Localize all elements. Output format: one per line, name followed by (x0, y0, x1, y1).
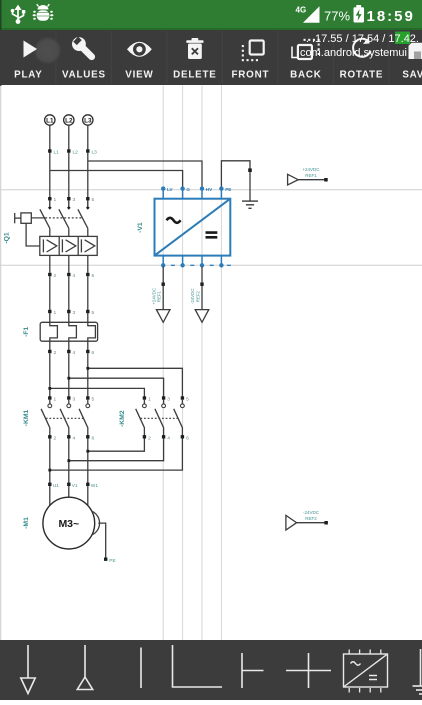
wires KM1 to motor (50, 439, 88, 485)
svg-text:4: 4 (73, 273, 76, 279)
wire L1 vertical (49, 125, 51, 199)
KM2 contact pole 3 (181, 400, 183, 404)
KM2 contact pole 2 (163, 400, 165, 404)
circuit breaker -Q1 (4, 197, 98, 279)
svg-text:PLAY: PLAY (14, 70, 42, 81)
contactor -KM1 (23, 396, 95, 441)
svg-text:5: 5 (92, 397, 95, 403)
KM2 pin 6 (181, 435, 184, 438)
status bar background (0, 0, 422, 30)
V1 bottom pin 3 (201, 256, 203, 266)
svg-text:PE: PE (109, 558, 115, 564)
svg-text:M3~: M3~ (58, 518, 79, 530)
svg-text:L3: L3 (84, 117, 92, 124)
svg-text:-F1: -F1 (23, 326, 30, 336)
Q1 pin 5 (86, 197, 89, 200)
svg-text:VALUES: VALUES (62, 70, 106, 81)
Q1 operator handle (14, 213, 16, 223)
wires F1 to KM1 (50, 353, 88, 398)
signal triangle (303, 6, 320, 23)
Q1 pin 6 (86, 273, 89, 276)
F1 pin 2 (48, 350, 51, 353)
svg-text:L1: L1 (54, 150, 60, 156)
play button ripple (34, 37, 62, 65)
svg-text:-24VDC: -24VDC (303, 510, 320, 515)
net arrow +24VDC (156, 310, 170, 323)
junction dot (67, 459, 70, 462)
motor body circle (43, 497, 95, 549)
svg-text:FRONT: FRONT (232, 70, 270, 81)
wire KM2 pin4 to phase B (69, 439, 164, 461)
Q1 pin 2 (48, 273, 51, 276)
svg-text:5: 5 (186, 397, 189, 403)
motor lead wires (50, 486, 88, 506)
ground symbol (242, 201, 258, 208)
svg-text:W1: W1 (91, 483, 99, 489)
V1 bottom pin 4 (220, 256, 222, 266)
tool icon: corner wire (173, 645, 223, 687)
svg-text:2: 2 (54, 435, 57, 441)
Q1 mechanical link (31, 217, 45, 219)
svg-text:+24VDC: +24VDC (302, 167, 320, 172)
bug (adb debug) icon (33, 4, 54, 21)
svg-text:PE: PE (225, 187, 231, 192)
tool icon: earth triangle (77, 645, 92, 690)
KM2 pin 1 (143, 396, 146, 399)
tool icon: ground (clipped) (413, 649, 422, 694)
right net reference +24VDC REF1 (288, 167, 328, 185)
overload relay -F1 (23, 310, 98, 356)
junction dot (48, 387, 51, 390)
wire branch A to KM2 pin1 (50, 388, 145, 398)
KM1 pin 4 (67, 435, 70, 438)
svg-text:-M1: -M1 (23, 517, 30, 529)
F1 heater element 1 (50, 313, 58, 352)
svg-text:5: 5 (92, 197, 95, 203)
svg-text:2: 2 (54, 350, 57, 356)
svg-text:-Q1: -Q1 (4, 232, 11, 244)
junction dot (48, 469, 51, 472)
battery icon (354, 7, 365, 22)
svg-text:ROTATE: ROTATE (340, 70, 384, 81)
svg-text:G: G (186, 187, 190, 192)
svg-text:HV: HV (206, 187, 213, 192)
TOPBAR (0, 30, 422, 85)
svg-text:VIEW: VIEW (125, 70, 153, 81)
svg-text:V1: V1 (72, 483, 78, 489)
values wrench icon (69, 34, 99, 64)
svg-text:REF2: REF2 (305, 516, 317, 521)
usb icon (13, 6, 24, 23)
svg-text:77%: 77% (324, 8, 350, 23)
wire branch C to KM2 pin5 (88, 368, 183, 398)
bottom toolbar background (0, 640, 422, 700)
view eye icon (127, 42, 152, 57)
KM1 link dashes (46, 417, 83, 419)
svg-text:4: 4 (73, 435, 76, 441)
wire KM2 pin6 to phase A (50, 439, 183, 471)
F1 pin 6 (86, 350, 89, 353)
wire L3 to V1 HV (88, 161, 202, 189)
Q1 trip element 3 (81, 239, 94, 252)
KM2 pin 3 (162, 396, 165, 399)
STATUSBAR (0, 0, 422, 30)
wires Q1 to F1 (50, 276, 88, 311)
grid horizontal lines (0, 190, 422, 266)
contactor -KM2 (119, 396, 189, 441)
KM1 pin 6 (86, 435, 89, 438)
window ident bracket icon (292, 47, 298, 58)
gpu profiler green chip (395, 32, 410, 45)
svg-text:18:59: 18:59 (367, 8, 415, 25)
motor PE node (104, 558, 107, 561)
node L1 (48, 149, 59, 155)
KM2 contact pole 1 (143, 400, 145, 404)
svg-text:4: 4 (73, 350, 76, 356)
junction dot (200, 283, 203, 286)
Q1 trip unit box (40, 236, 97, 255)
svg-text:3: 3 (167, 397, 170, 403)
svg-text:. .17.55 / 17.54 / 17.42.: . .17.55 / 17.54 / 17.42. (306, 33, 419, 45)
svg-text:3: 3 (73, 397, 76, 403)
rotate icon (353, 38, 370, 57)
terminal L2 (64, 115, 74, 125)
svg-text:6: 6 (92, 273, 95, 279)
F1 pin 4 (67, 350, 70, 353)
svg-text:1: 1 (54, 310, 57, 316)
svg-text:1: 1 (54, 197, 57, 203)
KM1 contact pole 2 (68, 400, 70, 404)
svg-text:6: 6 (92, 350, 95, 356)
junction dot (86, 367, 89, 370)
svg-text:6: 6 (186, 435, 189, 441)
V1 bottom pin 2 (182, 256, 184, 266)
tool icon: converter block (344, 650, 388, 693)
node L3 (86, 149, 97, 155)
svg-text:1: 1 (54, 397, 57, 403)
back icon (298, 39, 320, 59)
button separators (56, 31, 389, 84)
motor terminal W1 (86, 483, 89, 486)
KM1 contact pole 1 (49, 400, 51, 404)
F1 pin 3 (67, 310, 70, 313)
wire V1 LV- to arrow (162, 267, 164, 310)
F1 pin 5 (86, 310, 89, 313)
svg-text:1: 1 (148, 397, 151, 403)
V1 AC tilde (167, 218, 181, 223)
motor terminal U1 (48, 483, 51, 486)
svg-text:REF2: REF2 (195, 290, 200, 302)
svg-text:U1: U1 (53, 483, 59, 489)
wire KM2 pin2 to phase C (88, 439, 145, 452)
svg-text:L1: L1 (46, 117, 54, 124)
node L2 (67, 149, 78, 155)
KM2 link dashes (140, 417, 177, 419)
motor terminal V1 (67, 483, 70, 486)
terminal L3 (83, 115, 93, 125)
tool icon: down arrow net reference (21, 645, 35, 694)
junction dot (162, 283, 165, 286)
F1 heater element 2 (69, 313, 77, 352)
Q1 pin 3 (67, 197, 70, 200)
junction dot on PE wire (248, 168, 252, 172)
KM1 pin 5 (86, 396, 89, 399)
svg-text:3: 3 (73, 310, 76, 316)
V1 pin PE (220, 189, 222, 199)
Q1 pin 4 (67, 273, 70, 276)
F1 heater element 3 (88, 313, 96, 352)
svg-text:REF1: REF1 (305, 173, 317, 178)
svg-text:-KM1: -KM1 (23, 409, 30, 426)
KM2 pin 4 (162, 435, 165, 438)
save icon (clipped) (409, 43, 422, 59)
front icon (242, 41, 264, 62)
Q1 trip element 2 (62, 239, 75, 252)
V1 pin G (182, 189, 184, 199)
KM2 pin 2 (143, 435, 146, 438)
Q1 pin 1 (48, 197, 51, 200)
junction dot (86, 450, 89, 453)
KM1 pin 1 (48, 396, 51, 399)
V1 DC bars (206, 233, 218, 238)
tool icon: cross wire (286, 653, 331, 688)
motor terminal arc (92, 511, 100, 535)
motor -M1 (23, 483, 116, 564)
svg-text:SAVE: SAVE (402, 70, 422, 81)
svg-text:L2: L2 (73, 150, 79, 156)
F1 pin 1 (48, 310, 51, 313)
wire L1 to V1 G (50, 171, 183, 189)
svg-text:4G: 4G (296, 6, 307, 15)
svg-text:5: 5 (92, 310, 95, 316)
Q1 contact blades (40, 209, 88, 228)
V1 diagonal (155, 199, 231, 256)
KM1 pin 3 (67, 396, 70, 399)
tool icon: vertical wire (140, 648, 142, 689)
svg-text:6: 6 (92, 435, 95, 441)
Q1 pole wires through trip box (50, 228, 88, 272)
left edge shade (0, 0, 2, 86)
tool icon: tee wire (242, 653, 264, 688)
svg-text:LV: LV (167, 187, 173, 192)
OVERLAY (292, 32, 419, 60)
net arrow -24VDC (195, 310, 209, 323)
terminal L1 (45, 115, 55, 125)
Q1 stubs with cross marks (50, 200, 88, 209)
KM1 pin 2 (48, 435, 51, 438)
KM2 pin 5 (181, 396, 184, 399)
play icon (24, 41, 38, 58)
right net reference -24VDC REF2 (286, 510, 328, 530)
motor PE wire (98, 523, 105, 559)
V1 bottom pin 1 (162, 256, 164, 266)
V1 pin HV (201, 189, 203, 199)
toolbar background (0, 30, 422, 85)
wire branch B to KM2 pin3 (69, 378, 164, 398)
svg-text:-V1: -V1 (137, 222, 144, 233)
Q1 handle link wire (26, 223, 40, 246)
F1 box (40, 322, 97, 341)
junction dot (67, 377, 70, 380)
svg-text:L2: L2 (65, 117, 73, 124)
svg-text:L3: L3 (92, 150, 98, 156)
svg-text:-KM2: -KM2 (119, 410, 126, 427)
wire V1 PE to ground (221, 161, 250, 201)
delete trash icon (186, 38, 203, 59)
V1 bottom blue dashes (171, 264, 231, 266)
wire L2 vertical (68, 125, 70, 199)
Q1 trip element 1 (43, 239, 56, 252)
power supply U1 block -V1 (137, 186, 231, 267)
V1 box (155, 199, 231, 256)
svg-text:com.android.systemui: com.android.systemui (300, 47, 407, 59)
svg-text:2: 2 (148, 435, 151, 441)
BOTTOMBAR (0, 640, 422, 700)
canvas left page edge (0, 86, 2, 640)
grid vertical lines (163, 86, 221, 641)
wire L3 vertical (87, 125, 89, 199)
KM1 contact pole 3 (87, 400, 89, 404)
svg-text:REF1: REF1 (157, 290, 162, 302)
svg-text:BACK: BACK (290, 70, 322, 81)
svg-text:DELETE: DELETE (173, 70, 216, 81)
V1 pin LV (162, 189, 164, 199)
svg-text:3: 3 (73, 197, 76, 203)
wire V1 HV- to arrow (201, 267, 203, 310)
svg-text:2: 2 (54, 273, 57, 279)
svg-text:4: 4 (167, 435, 170, 441)
